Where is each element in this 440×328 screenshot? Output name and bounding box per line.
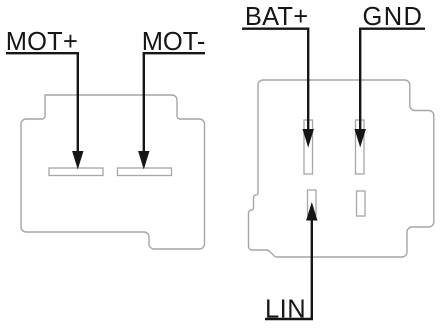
arrowhead MOT+ xyxy=(72,151,83,170)
leader line GND xyxy=(360,29,425,130)
svg-text:MOT+: MOT+ xyxy=(6,28,78,56)
connector J2 body (right, 4-pin) xyxy=(249,80,434,257)
arrowhead MOT- xyxy=(138,151,149,170)
pin slot spare (bottom-right cavity) xyxy=(357,191,366,216)
arrowhead LIN xyxy=(306,202,317,221)
leader line LIN xyxy=(265,220,312,319)
pin slot LIN (bottom-left cavity) xyxy=(308,190,317,215)
connector J1 body (left, 2-pin) xyxy=(21,95,205,249)
leader line MOT+ xyxy=(6,53,78,152)
arrowhead GND xyxy=(355,129,366,148)
svg-text:GND: GND xyxy=(363,3,424,31)
svg-text:BAT+: BAT+ xyxy=(245,3,308,31)
svg-text:MOT-: MOT- xyxy=(142,28,206,56)
arrowhead BAT+ xyxy=(303,129,314,148)
leader line MOT- xyxy=(144,53,205,152)
pin slot MOT+ (left connector, left blade) xyxy=(49,168,103,176)
pin slot MOT- (left connector, right blade) xyxy=(118,168,172,176)
pin slot BAT+ (top-left cavity) xyxy=(304,120,313,174)
pin slot GND (top-right cavity) xyxy=(356,120,365,174)
leader line BAT+ xyxy=(242,29,308,130)
